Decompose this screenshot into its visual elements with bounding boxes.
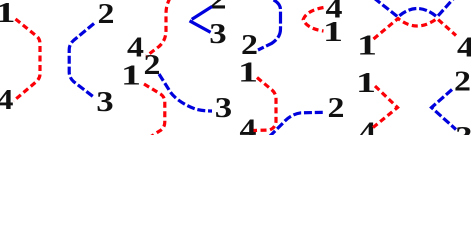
wire: figure 2 blue dashed strand from 2 to 3	[159, 74, 212, 111]
svg-text:3: 3	[209, 17, 226, 50]
svg-text:3: 3	[215, 91, 232, 124]
svg-text:1: 1	[0, 0, 16, 29]
wire: figure 4 blue strand top-left over arc to top-right	[374, 0, 454, 17]
svg-text:2: 2	[454, 65, 471, 97]
svg-text:4: 4	[0, 83, 14, 115]
svg-text:1: 1	[357, 29, 377, 61]
svg-text:2: 2	[98, 0, 115, 29]
wire: figure 4 blue dashed chevron from 2 to 3 pointing left	[432, 90, 457, 130]
wire: figure 3 blue strand from bottom edge to 2	[270, 112, 326, 136]
wire: figure 2 red dashed strand from top edge to 4	[147, 0, 171, 56]
wire: figure 3 blue dashed strand from top edge to 2	[258, 0, 281, 50]
wire: figure 2 blue chevron opening right toward 2 and 3	[190, 7, 213, 33]
wire: figure 4 red dashed chevron from 1 to 4 pointing right	[373, 86, 398, 128]
wire: figure 3 red dashed strand from 1 to 4	[254, 78, 277, 131]
wire: figure 2 red dashed strand from 1 to bottom edge	[144, 84, 165, 137]
wire: figure 1 red dashed strand from 1 to 4	[14, 19, 41, 101]
wire: figure 3 red dashed chevron opening right toward 4 and 1	[303, 8, 323, 32]
svg-text:1: 1	[121, 59, 141, 91]
svg-text:1: 1	[238, 56, 258, 88]
wire: figure 1 blue dashed strand from 2 to 3	[69, 24, 94, 97]
svg-text:4: 4	[457, 31, 471, 63]
svg-text:1: 1	[356, 66, 376, 98]
svg-text:3: 3	[455, 120, 471, 135]
wire: figure 4 red dashed strand from 1 under arc to 4	[374, 19, 457, 40]
svg-text:2: 2	[328, 91, 345, 123]
svg-text:3: 3	[96, 85, 113, 118]
svg-text:1: 1	[323, 15, 343, 47]
